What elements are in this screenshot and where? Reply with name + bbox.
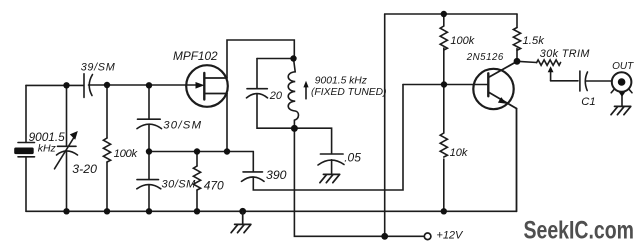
svg-text:2N5126: 2N5126	[466, 52, 504, 63]
svg-text:100k: 100k	[450, 35, 474, 47]
svg-text:39/SM: 39/SM	[81, 62, 116, 74]
svg-text:1.5k: 1.5k	[523, 35, 546, 47]
svg-text:30/SM: 30/SM	[163, 120, 202, 132]
svg-text:MPF102: MPF102	[173, 49, 218, 63]
svg-text:kHz: kHz	[38, 143, 57, 155]
svg-text:10k: 10k	[450, 147, 468, 159]
svg-text:3-20: 3-20	[72, 162, 97, 176]
svg-text:100k: 100k	[114, 148, 139, 160]
svg-text:30k TRIM: 30k TRIM	[540, 48, 590, 60]
svg-text:30/SM: 30/SM	[162, 178, 197, 190]
svg-text:C1: C1	[581, 96, 595, 108]
svg-text:+12V: +12V	[436, 230, 464, 242]
svg-text:390: 390	[266, 168, 287, 182]
svg-text:9001.5 kHz: 9001.5 kHz	[315, 75, 367, 86]
svg-text:470: 470	[204, 178, 224, 192]
svg-text:(FIXED TUNED): (FIXED TUNED)	[311, 87, 387, 98]
svg-text:20: 20	[269, 90, 283, 102]
svg-text:OUT: OUT	[612, 61, 634, 72]
svg-text:.05: .05	[344, 151, 361, 165]
svg-text:SeekIC.com: SeekIC.com	[524, 216, 634, 244]
